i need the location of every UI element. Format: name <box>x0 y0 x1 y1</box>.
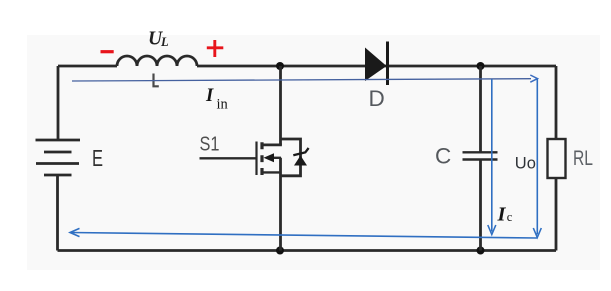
blue Uo arrow (vertical right) <box>533 79 541 238</box>
svg-text:C: C <box>435 144 451 169</box>
wire right upper <box>555 66 558 139</box>
wire left lower <box>56 175 59 251</box>
wire capacitor branch lower <box>479 160 482 251</box>
blue Ic arrow (vertical) <box>488 79 496 235</box>
transistor S1 (MOSFET) <box>257 142 282 176</box>
wire gate lead <box>200 157 257 159</box>
blue current line Iin (top) <box>72 75 538 82</box>
svg-text:RL: RL <box>573 147 593 170</box>
svg-text:in: in <box>217 97 229 113</box>
polarity minus <box>101 50 114 53</box>
diode D <box>365 42 388 112</box>
wire bottom <box>58 249 557 252</box>
svg-text:Uo: Uo <box>515 154 536 172</box>
wire right lower <box>555 178 558 251</box>
svg-text:c: c <box>507 210 513 224</box>
wire source branch <box>279 158 282 251</box>
node top-2 junction <box>477 62 485 70</box>
svg-text:I: I <box>497 203 507 225</box>
resistor RL <box>548 139 566 178</box>
node bottom-1 junction <box>276 247 284 255</box>
node bottom-2 junction <box>477 247 485 255</box>
inductor L <box>117 56 197 66</box>
svg-text:L: L <box>160 35 169 49</box>
node top-1 junction <box>276 62 284 70</box>
polarity plus <box>207 40 224 57</box>
blue return line (bottom) <box>70 228 537 238</box>
battery E <box>36 140 81 175</box>
capacitor C <box>463 152 498 159</box>
label L <box>154 74 159 87</box>
wire capacitor branch upper <box>479 66 482 152</box>
wire top <box>58 65 556 68</box>
svg-text:S1: S1 <box>200 133 220 156</box>
svg-text:D: D <box>369 86 385 111</box>
wire drain branch <box>279 66 282 145</box>
body diode of S1 <box>281 139 309 176</box>
svg-text:E: E <box>92 145 103 171</box>
svg-text:I: I <box>205 86 214 106</box>
wire left upper <box>57 66 60 139</box>
